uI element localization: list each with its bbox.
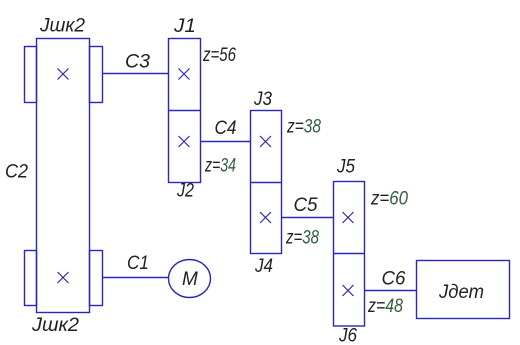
svg-text:z=38: z=38 bbox=[286, 117, 321, 138]
svg-text:С5: С5 bbox=[294, 195, 318, 216]
svg-text:z=38: z=38 bbox=[285, 228, 319, 249]
svg-text:С6: С6 bbox=[382, 269, 406, 290]
svg-text:Jдет: Jдет bbox=[438, 282, 484, 303]
svg-text:J3: J3 bbox=[253, 89, 272, 110]
svg-text:Jшк2: Jшк2 bbox=[31, 315, 79, 336]
svg-text:С1: С1 bbox=[127, 253, 149, 274]
svg-text:J4: J4 bbox=[254, 256, 273, 277]
svg-text:Jшк2: Jшк2 bbox=[39, 16, 85, 37]
svg-text:J5: J5 bbox=[336, 157, 355, 178]
svg-text:z=34: z=34 bbox=[204, 156, 236, 177]
svg-text:J2: J2 bbox=[176, 181, 194, 202]
svg-text:С2: С2 bbox=[5, 162, 28, 183]
svg-text:z=60: z=60 bbox=[370, 189, 408, 210]
svg-text:С4: С4 bbox=[215, 118, 237, 139]
svg-text:z=48: z=48 bbox=[367, 296, 403, 317]
svg-text:М: М bbox=[182, 269, 198, 290]
svg-text:С3: С3 bbox=[125, 52, 150, 73]
svg-text:J6: J6 bbox=[338, 326, 357, 345]
svg-text:J1: J1 bbox=[173, 16, 196, 37]
svg-text:z=56: z=56 bbox=[202, 45, 236, 66]
